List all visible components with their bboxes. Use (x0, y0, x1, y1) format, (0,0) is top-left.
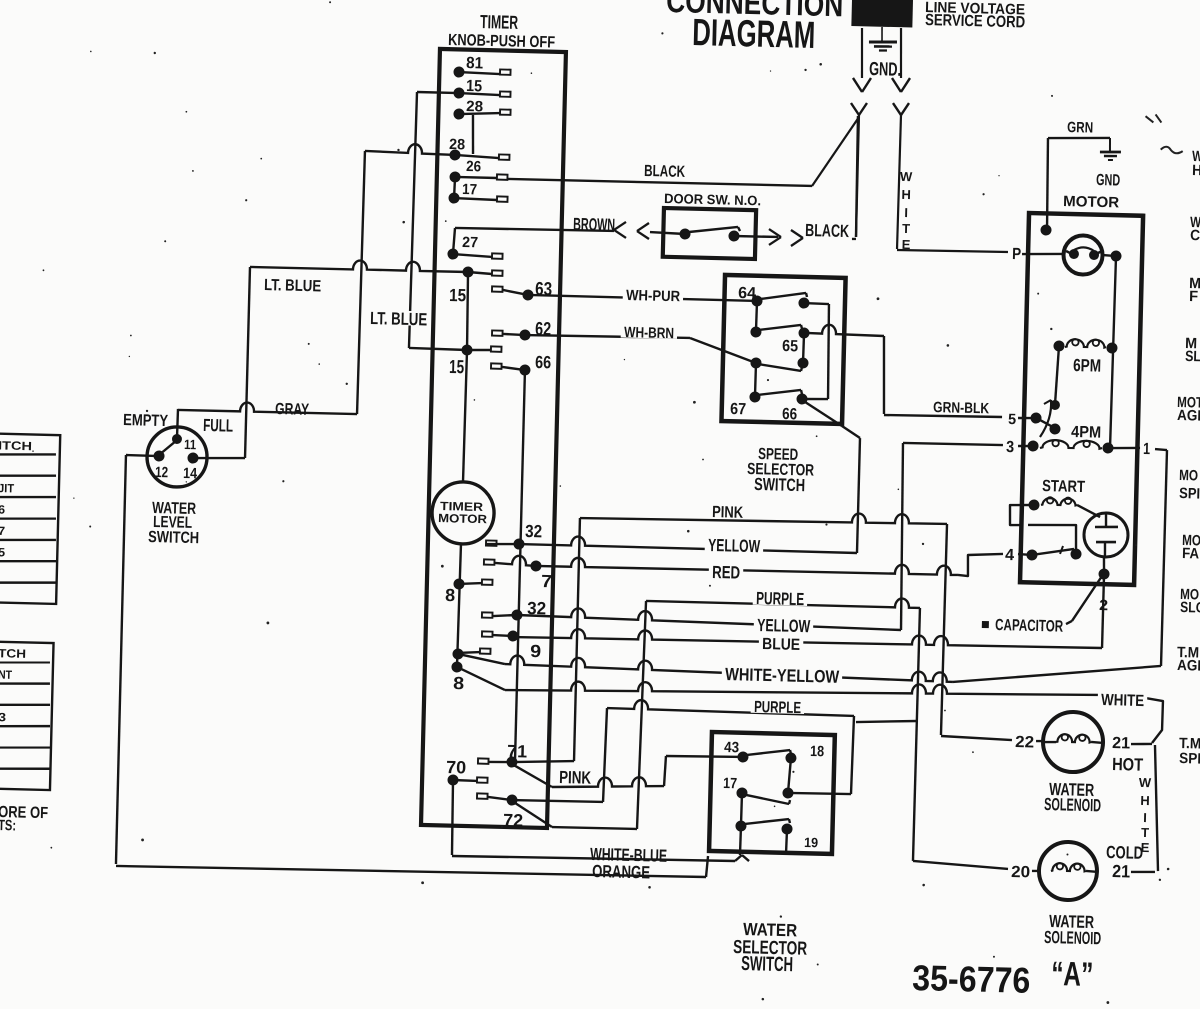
svg-text:LT. BLUE: LT. BLUE (264, 276, 322, 295)
svg-text:SWITCH: SWITCH (148, 528, 199, 547)
svg-text:5: 5 (0, 545, 6, 559)
svg-text:START: START (1042, 477, 1085, 496)
svg-text:BLACK: BLACK (805, 220, 850, 241)
svg-text:66: 66 (535, 352, 552, 372)
svg-text:27: 27 (462, 234, 478, 251)
svg-text:SWITCH: SWITCH (741, 953, 794, 976)
svg-text:SL: SL (1185, 348, 1200, 365)
svg-text:18: 18 (810, 743, 824, 760)
svg-text:8: 8 (453, 673, 465, 693)
svg-text:BLACK: BLACK (644, 162, 686, 181)
svg-text:T: T (902, 221, 910, 236)
svg-text:YELLOW: YELLOW (757, 615, 811, 636)
svg-text:FA: FA (1182, 545, 1200, 562)
svg-text:TIMER: TIMER (480, 12, 519, 34)
svg-text:17: 17 (723, 775, 737, 792)
svg-text:22: 22 (1015, 733, 1034, 751)
svg-text:I: I (904, 205, 908, 220)
svg-text:GRN-BLK: GRN-BLK (933, 399, 990, 417)
svg-text:35-6776: 35-6776 (912, 957, 1031, 1001)
svg-text:HOT: HOT (1112, 754, 1144, 775)
svg-text:E: E (902, 237, 911, 252)
svg-text:W: W (1139, 775, 1152, 790)
svg-text:SWITCH: SWITCH (754, 474, 805, 495)
svg-text:YELLOW: YELLOW (708, 535, 761, 556)
svg-text:FULL: FULL (203, 415, 234, 436)
svg-text:5: 5 (1008, 411, 1016, 428)
svg-text:15: 15 (449, 357, 465, 378)
svg-text:MO: MO (1179, 467, 1199, 484)
svg-text:43: 43 (724, 739, 739, 756)
svg-text:W: W (900, 169, 913, 184)
svg-text:SOLENOID: SOLENOID (1044, 794, 1102, 815)
svg-text:6PM: 6PM (1073, 355, 1101, 376)
svg-text:15: 15 (449, 285, 467, 305)
svg-text:GRN: GRN (1067, 119, 1093, 137)
svg-text:EMPTY: EMPTY (123, 411, 169, 430)
svg-text:28: 28 (466, 98, 483, 115)
svg-text:DOOR SW. N.O.: DOOR SW. N.O. (664, 191, 761, 208)
svg-text:WH-PUR: WH-PUR (626, 287, 681, 305)
svg-text:GND.: GND. (869, 59, 902, 81)
svg-text:T: T (1141, 825, 1149, 840)
svg-text:LT. BLUE: LT. BLUE (370, 308, 428, 329)
svg-text:KNOB-PUSH OFF: KNOB-PUSH OFF (448, 31, 555, 52)
svg-text:3: 3 (1006, 438, 1014, 456)
svg-text:4PM: 4PM (1071, 423, 1101, 442)
svg-text:72: 72 (503, 810, 524, 830)
svg-text:8: 8 (445, 585, 456, 605)
svg-text:MOTOR: MOTOR (438, 511, 488, 526)
svg-text:PURPLE: PURPLE (754, 698, 802, 717)
svg-text:12: 12 (155, 464, 168, 481)
svg-text:DIAGRAM: DIAGRAM (692, 12, 816, 57)
svg-text:P: P (1012, 245, 1022, 263)
svg-text:ITCH: ITCH (0, 438, 32, 453)
svg-text:H: H (1192, 162, 1200, 179)
svg-text:21: 21 (1112, 734, 1130, 752)
svg-text:MOTOR: MOTOR (1063, 193, 1120, 211)
svg-text:AGI: AGI (1177, 407, 1200, 425)
svg-text:AGI: AGI (1177, 657, 1200, 675)
svg-text:RED: RED (712, 562, 741, 583)
svg-text:BLUE: BLUE (762, 635, 801, 654)
svg-text:SOLENOID: SOLENOID (1044, 927, 1102, 948)
svg-text:TS:: TS: (0, 817, 16, 834)
svg-text:H: H (1140, 793, 1150, 808)
svg-text:32: 32 (525, 521, 543, 541)
svg-text:63: 63 (535, 279, 553, 300)
svg-text:21: 21 (1112, 861, 1131, 881)
svg-text:11: 11 (184, 437, 197, 452)
svg-text:71: 71 (507, 741, 528, 761)
svg-text:GND: GND (1096, 171, 1121, 190)
svg-text:ORANGE: ORANGE (592, 861, 651, 882)
svg-text:COLD: COLD (1106, 842, 1144, 863)
svg-text:15: 15 (466, 77, 482, 95)
svg-text:20: 20 (1011, 863, 1030, 881)
svg-text:7: 7 (541, 571, 553, 591)
svg-text:28: 28 (449, 136, 465, 153)
svg-text:SPI: SPI (1179, 485, 1200, 503)
svg-text:WHITE: WHITE (1101, 691, 1145, 710)
svg-text:SPI: SPI (1179, 750, 1200, 768)
svg-text:C: C (1190, 227, 1200, 244)
svg-text:JIT: JIT (0, 481, 15, 495)
svg-text:E: E (1141, 840, 1150, 855)
svg-text:3: 3 (0, 710, 7, 724)
svg-text:2: 2 (1099, 597, 1108, 614)
svg-text:62: 62 (535, 319, 552, 340)
svg-text:H: H (901, 187, 911, 202)
svg-text:19: 19 (804, 835, 819, 850)
svg-text:7: 7 (0, 524, 6, 538)
svg-text:WH-BRN: WH-BRN (624, 324, 674, 342)
svg-text:NT: NT (0, 668, 13, 682)
svg-text:BROWN: BROWN (573, 214, 615, 235)
svg-text:17: 17 (462, 181, 477, 198)
svg-text:“A”: “A” (1051, 955, 1094, 994)
svg-text:65: 65 (782, 337, 798, 355)
svg-text:4: 4 (1005, 546, 1014, 564)
svg-text:TCH: TCH (0, 646, 26, 661)
svg-text:F: F (1189, 288, 1198, 305)
svg-text:I: I (1143, 810, 1147, 825)
svg-text:PURPLE: PURPLE (756, 588, 805, 609)
svg-text:PINK: PINK (712, 503, 744, 522)
svg-text:70: 70 (446, 757, 467, 777)
svg-text:81: 81 (466, 54, 483, 72)
svg-text:PINK: PINK (559, 767, 592, 788)
svg-text:14: 14 (183, 465, 198, 482)
svg-text:64: 64 (738, 284, 756, 302)
svg-text:66: 66 (782, 405, 797, 423)
svg-text:CAPACITOR: CAPACITOR (995, 616, 1064, 636)
svg-text:WHITE-YELLOW: WHITE-YELLOW (725, 664, 840, 687)
svg-text:67: 67 (730, 400, 746, 418)
svg-text:26: 26 (466, 158, 481, 175)
svg-text:9: 9 (530, 641, 542, 661)
svg-text:1: 1 (1143, 440, 1150, 458)
svg-text:GRAY: GRAY (275, 400, 310, 419)
svg-text:6: 6 (0, 502, 6, 516)
svg-text:SLO: SLO (1180, 599, 1200, 617)
svg-text:SERVICE CORD: SERVICE CORD (925, 11, 1026, 31)
